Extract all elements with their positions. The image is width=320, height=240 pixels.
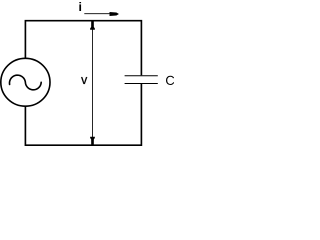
current arrow i head [110,12,119,16]
voltage arrow v line [91,22,93,145]
capacitor C top plate [125,75,158,77]
ac source [1,58,50,106]
capacitor C bottom plate [125,82,158,84]
label v [81,77,87,84]
sine symbol inside source [9,75,41,90]
label C [166,76,174,85]
wire bottom run: left riser from source, bottom wire, right riser to capacitor [25,84,141,145]
voltage arrow bottom head [90,137,95,145]
voltage arrow top head [90,21,95,29]
wire top run: left riser, top wire, right riser to capacitor [25,21,141,76]
current arrow i line [84,13,111,15]
label i [79,2,81,11]
